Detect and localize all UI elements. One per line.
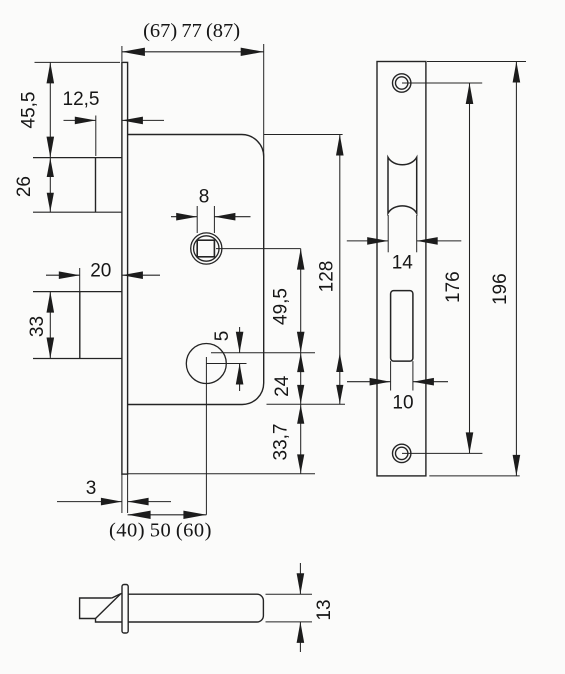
dimension 10: arrows outside pointing in — [347, 381, 391, 383]
dimension 128: line and arrows — [339, 135, 341, 405]
dimension 24: line and arrows — [300, 353, 302, 405]
shaft top stub left of flange — [121, 593, 122, 595]
spindle hub follower (square 8mm in circles) — [191, 233, 222, 264]
dimension 196: line and arrows — [515, 62, 517, 476]
svg-text:10: 10 — [392, 393, 413, 414]
dimension 3: extension lines below plate — [121, 474, 123, 513]
svg-text:49,5: 49,5 — [271, 288, 292, 325]
svg-text:196: 196 — [490, 273, 511, 305]
dimension 8: arrows outside pointing in — [171, 216, 197, 218]
plate bottom extension line for 196 — [429, 475, 519, 477]
svg-text:(40) 50 (60): (40) 50 (60) — [109, 520, 212, 542]
dimension 5: upper arrow to reference line — [239, 327, 241, 353]
dimension 13: extension lines — [266, 593, 313, 595]
dimension 20: arrows outside pointing in — [46, 274, 80, 276]
case bottom extension line — [267, 403, 346, 405]
svg-text:26: 26 — [14, 176, 35, 197]
dimension 49,5: line and arrows — [300, 249, 302, 353]
dimension 20: extension line above deadbolt — [79, 268, 81, 291]
shaft bottom visible left of flange — [96, 619, 123, 623]
dimension 14: extension lines — [387, 215, 389, 252]
svg-text:128: 128 — [317, 261, 338, 293]
svg-text:20: 20 — [90, 261, 111, 282]
faceplate cross-section flange — [122, 585, 128, 634]
svg-text:(67) 77 (87): (67) 77 (87) — [143, 20, 240, 42]
latch head bevel diagonal — [96, 594, 121, 619]
cylinder vertical centerline down to 50-dim — [205, 357, 207, 515]
dimension 176: line and arrows — [469, 83, 471, 453]
bottom reference extension line — [128, 473, 315, 475]
svg-text:12,5: 12,5 — [63, 89, 100, 110]
faceplate (main view, 3mm thick plate) — [122, 62, 128, 474]
cylinder horizontal centerline stub — [206, 363, 246, 365]
plate top extension line for 196 — [427, 61, 526, 63]
dimension 8: extension lines from square hub — [196, 206, 198, 233]
case top extension line — [264, 134, 343, 136]
svg-text:24: 24 — [272, 375, 293, 397]
deadbolt protruding left (33 high, 20 throw) — [79, 292, 81, 359]
latch bolt protruding left (26 high) — [95, 158, 97, 213]
dimension 33,7: line and arrows — [300, 404, 302, 474]
dimension 33: line and arrows — [49, 292, 51, 359]
reference line at spindle centre going right — [216, 248, 301, 250]
dimension 10: extension lines — [390, 361, 392, 390]
latch bolt shaft with rounded right end — [128, 594, 263, 622]
dimension 12,5: arrows outside pointing in — [64, 119, 96, 121]
dimension 5: lower arrow to cylinder centerline — [239, 364, 241, 392]
svg-text:33: 33 — [27, 316, 48, 337]
reference line 5mm above cylinder centre — [211, 352, 315, 354]
svg-text:33,7: 33,7 — [271, 424, 292, 461]
svg-text:176: 176 — [443, 271, 464, 303]
top screw hole — [393, 74, 411, 92]
svg-text:13: 13 — [314, 599, 335, 620]
svg-text:14: 14 — [392, 253, 414, 274]
dimension 13: arrows outside pointing in — [299, 563, 301, 594]
svg-text:5: 5 — [212, 331, 233, 342]
dimension 45,5: extension line at plate top — [35, 61, 121, 63]
dimension 45,5: line and arrows — [49, 62, 51, 157]
lock case outline with rounded right corners — [128, 135, 264, 405]
faceplate front view outline — [377, 62, 426, 476]
bottom screw hole — [393, 444, 411, 462]
svg-text:45,5: 45,5 — [19, 92, 40, 129]
bottom screw hole leader line — [402, 452, 482, 454]
svg-text:3: 3 — [86, 478, 97, 499]
latch opening (14 wide, waisted shape) — [388, 157, 417, 213]
dimension (40) 50 (60): line and arrows — [128, 514, 207, 516]
latch head top chamfer — [112, 594, 121, 598]
cylinder hole circle — [186, 344, 226, 384]
dimension 12,5: extension line — [95, 116, 97, 157]
top screw hole leader line — [402, 82, 482, 84]
dimension (67) 77 (87): dimension line and arrows — [122, 51, 264, 53]
deadbolt slot (10 wide) — [391, 291, 413, 362]
latch bolt beveled head — [80, 598, 112, 619]
dimension 14: arrows outside pointing in — [347, 240, 388, 242]
dimension (67) 77 (87) top: extension lines — [121, 46, 123, 62]
dimension 26: line and arrows — [49, 158, 51, 213]
dimension 3: arrows outside pointing in — [57, 501, 122, 503]
svg-text:8: 8 — [199, 187, 210, 208]
